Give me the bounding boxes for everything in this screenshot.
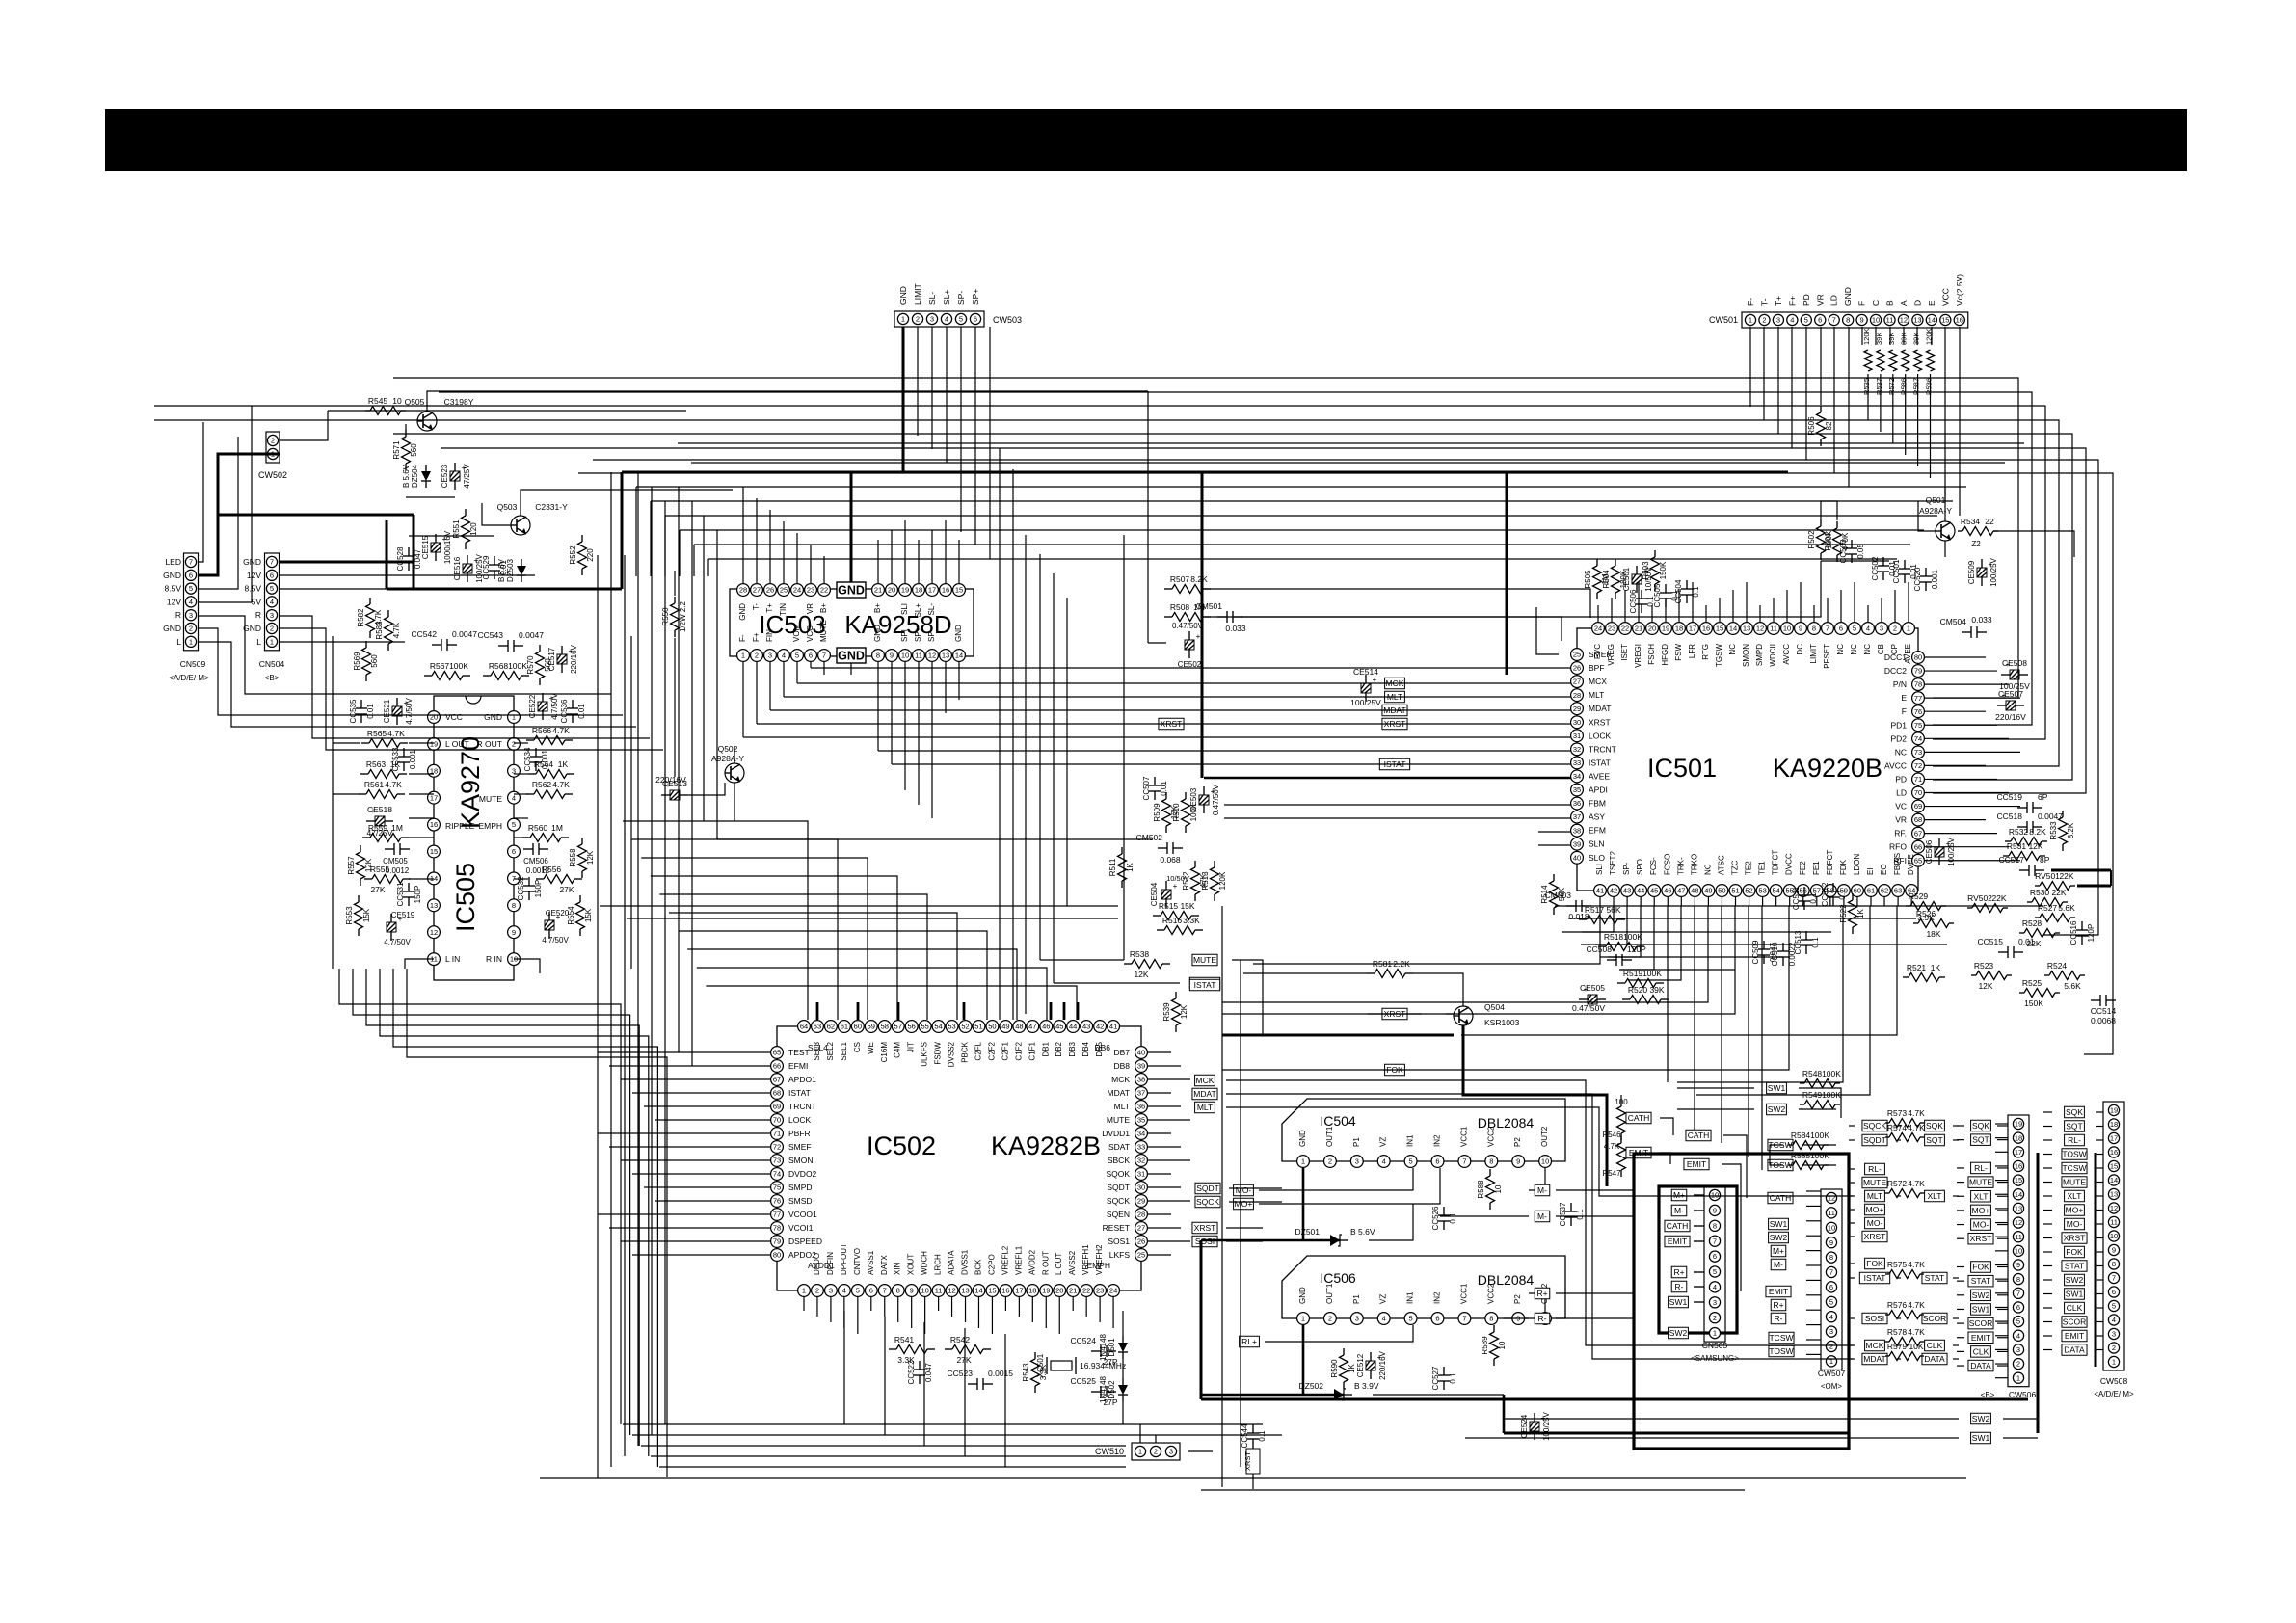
svg-text:4.7K: 4.7K (392, 622, 401, 638)
wire cw508 STAT row2 (2096, 1265, 2103, 1267)
wire ic502 right pin 9 (1148, 1173, 1171, 1175)
svg-text:35: 35 (1137, 1116, 1145, 1125)
svg-text:TRK-: TRK- (1676, 857, 1685, 875)
svg-text:17: 17 (430, 793, 438, 802)
wire cw506 pin stub 2 (1995, 1151, 2008, 1153)
resistor R590 (1330, 1348, 1356, 1389)
svg-text:MUTE: MUTE (819, 620, 828, 642)
wire cn509 up2 (199, 437, 238, 589)
wire cw506 STAT row left (1957, 1280, 1964, 1282)
wire ic503 top stub r 3 (918, 540, 920, 583)
wire cw507 res row y1241 (1897, 1195, 1901, 1197)
resistor R557 (347, 845, 373, 886)
wire CW501 pin3 drop (1777, 327, 1779, 434)
wire cw508 SCOR row (2043, 1321, 2052, 1323)
node MCK (1195, 1075, 1215, 1086)
svg-text:SQT: SQT (1926, 1135, 1942, 1145)
wire ic502 right pin 2 (1148, 1078, 1190, 1080)
svg-text:28: 28 (739, 586, 747, 595)
svg-text:LOCK: LOCK (1589, 731, 1611, 740)
connector CW506 (2008, 1115, 2029, 1387)
svg-text:M+: M+ (1773, 1246, 1784, 1256)
svg-text:4.7K: 4.7K (385, 780, 402, 789)
svg-text:73: 73 (1914, 748, 1922, 757)
wire CW501 pin14 drop (1931, 327, 1933, 345)
wire ic503 bot stub rx967 (931, 662, 933, 818)
svg-text:CE517: CE517 (547, 647, 556, 671)
wire ic501 right conn 9 (1925, 778, 1997, 780)
svg-text:4.7K: 4.7K (1908, 1300, 1925, 1310)
svg-text:0.068: 0.068 (1160, 855, 1181, 865)
svg-text:8.2K: 8.2K (2029, 827, 2046, 837)
wire ic501 drop 8 (1629, 906, 1789, 1070)
node STAT cw508 (2062, 1261, 2087, 1272)
wire cw508 MO- row2 (2096, 1223, 2103, 1225)
svg-text:15: 15 (1716, 625, 1723, 633)
svg-text:11: 11 (1828, 1209, 1835, 1217)
svg-text:VCC: VCC (1940, 288, 1950, 306)
svg-text:27: 27 (1573, 678, 1581, 686)
wire ic503 bot stub x771 (742, 662, 744, 737)
resistor R530 (2027, 888, 2068, 907)
svg-text:ASY: ASY (1589, 812, 1605, 822)
svg-text:R560: R560 (528, 823, 548, 833)
svg-text:SQOK: SQOK (1106, 1169, 1130, 1179)
svg-text:4: 4 (1382, 1157, 1386, 1166)
wire ic502 right pin 11 (1148, 1200, 1190, 1202)
svg-text:20: 20 (1648, 625, 1656, 633)
svg-text:R534: R534 (1961, 517, 1981, 526)
svg-text:39K: 39K (1912, 333, 1921, 345)
potentiometer RV502 (1967, 893, 2008, 913)
svg-text:SMEF: SMEF (788, 1142, 812, 1152)
svg-text:SW2: SW2 (1972, 1290, 1990, 1300)
svg-text:VZ: VZ (1379, 1137, 1388, 1147)
svg-text:24: 24 (1109, 1287, 1117, 1295)
node CATH (1665, 1220, 1690, 1232)
wire bottom bus 2 (641, 1445, 1126, 1447)
wire cw507 MO+ left (1849, 1209, 1855, 1211)
wire cn509 r (199, 616, 611, 694)
wire ic502 right pin 14 (1148, 1240, 1190, 1242)
wire ic501 top stub 0 (1597, 605, 1599, 622)
capacitor CM502 (1136, 833, 1183, 854)
wire ce513 link (688, 783, 725, 795)
node MO+ cw507 (1865, 1204, 1885, 1215)
capacitor CC524 (1071, 1336, 1116, 1357)
resistor R545 (365, 396, 406, 415)
node MO+ cw508 (2065, 1205, 2085, 1216)
svg-text:51: 51 (974, 1023, 982, 1031)
svg-text:CM504: CM504 (1940, 617, 1967, 626)
wire cw507 res row y1183 (1897, 1139, 1901, 1141)
svg-text:22: 22 (1082, 1287, 1090, 1295)
resistor R563 (360, 759, 407, 779)
svg-text:80: 80 (1914, 653, 1922, 662)
wire bus mid corner 1 (650, 501, 652, 576)
resistor R513 (1201, 861, 1227, 901)
svg-text:SQT: SQT (2066, 1122, 2082, 1131)
node MCK cw507 (1865, 1340, 1885, 1351)
svg-text:6: 6 (869, 1287, 873, 1295)
svg-text:100K: 100K (1623, 932, 1642, 942)
svg-text:P1: P1 (1352, 1294, 1361, 1304)
capacitor CC509 (1751, 940, 1777, 964)
wire CW501 pin6 drop (1820, 327, 1822, 405)
svg-text:FDK: FDK (1839, 859, 1848, 875)
svg-text:R514: R514 (1540, 885, 1549, 904)
svg-text:16: 16 (1001, 1287, 1009, 1295)
resistor R534 (1958, 517, 1998, 536)
svg-text:4: 4 (842, 1287, 846, 1295)
wire under501 y967 (1582, 931, 1831, 933)
svg-text:30: 30 (1137, 1184, 1145, 1192)
node EMIT (1626, 1147, 1651, 1158)
svg-text:6: 6 (1818, 316, 1822, 325)
svg-text:52: 52 (961, 1023, 969, 1031)
svg-text:1N4148: 1N4148 (1099, 1333, 1108, 1361)
svg-text:1: 1 (741, 652, 745, 660)
svg-text:SQDT: SQDT (1863, 1135, 1886, 1145)
resistor R541 (889, 1335, 935, 1354)
svg-text:MO-: MO- (1867, 1218, 1883, 1228)
svg-text:100/25V: 100/25V (1989, 557, 1998, 586)
svg-text:14: 14 (1928, 316, 1936, 325)
wire sw2 long (1677, 1108, 1754, 1110)
wire ic501 right conn 14 (1925, 846, 2009, 848)
wire ic502 bottom stub 20 (1072, 1297, 1074, 1311)
svg-text:CE523: CE523 (441, 464, 449, 488)
svg-text:F-: F- (1746, 298, 1755, 306)
svg-text:7: 7 (189, 558, 193, 567)
wire bus loop 6 (593, 460, 2098, 935)
wire ic501 bottom stub 19 (1856, 897, 1858, 906)
wire cw508 SW2 row (2043, 1279, 2052, 1281)
wire m. row (1440, 1215, 1529, 1217)
svg-text:1: 1 (2016, 1373, 2020, 1382)
wire cw506 FOK row right (1997, 1266, 2008, 1268)
svg-text:VCC: VCC (445, 712, 463, 722)
svg-text:63: 63 (1894, 887, 1902, 895)
diode D502 (1099, 1375, 1128, 1403)
wire r584 left (1770, 1145, 1783, 1165)
svg-text:0.01: 0.01 (1909, 564, 1918, 579)
wire mid row y737 (770, 709, 1571, 711)
connector CN509 (184, 553, 199, 651)
wire ic501 bottom stub 16 (1816, 897, 1818, 906)
svg-text:CE512: CE512 (1356, 1353, 1365, 1377)
resistor R511 (1108, 847, 1135, 888)
svg-text:150K: 150K (1659, 561, 1668, 579)
node MLT cw507 (1865, 1190, 1885, 1202)
transistor Q505 (417, 412, 437, 431)
resistor R575 (1885, 1260, 1925, 1279)
wire ic502 left pin 9 (632, 1173, 770, 1175)
svg-text:RTG: RTG (1701, 644, 1710, 660)
svg-text:C4M: C4M (894, 1042, 902, 1058)
svg-text:GND: GND (243, 624, 261, 633)
wire M+ to CN505 (1694, 1194, 1704, 1196)
resistor R503 (1642, 550, 1668, 591)
wire ic501 bottom stub 10 (1735, 897, 1737, 906)
wire cw506 MO- row right (1997, 1224, 2008, 1226)
wire ic505 right rail2 (630, 636, 632, 969)
svg-text:AVDD1: AVDD1 (808, 1261, 835, 1270)
wire v 704 (678, 487, 680, 1052)
wire ic503 top stub r 4 (931, 530, 933, 583)
svg-text:ULKFS: ULKFS (921, 1042, 929, 1067)
wire v1191 (1147, 391, 1149, 643)
wire q502 down (734, 783, 735, 821)
svg-text:DBL2084: DBL2084 (1478, 1115, 1535, 1131)
svg-text:13: 13 (430, 901, 438, 910)
svg-text:2: 2 (916, 315, 920, 324)
svg-text:32: 32 (1137, 1157, 1145, 1165)
wire ic501 bottom stub 0 (1599, 897, 1601, 906)
svg-text:220/16V: 220/16V (570, 644, 578, 673)
svg-text:P1: P1 (1352, 1137, 1361, 1147)
wire staircase mid 4 (659, 894, 927, 1020)
wire cw506 pin stub 12 (1995, 1292, 2008, 1294)
wire cw508 SQT row2 (2096, 1126, 2103, 1128)
capacitor CC519 (1997, 792, 2048, 813)
wire cw507 pin stub 11 (1806, 1353, 1821, 1355)
wire ic501 right conn 5 (1925, 724, 1997, 726)
svg-text:220/16V: 220/16V (655, 775, 686, 785)
wire staircase mid 7 (687, 949, 1017, 1020)
svg-text:50: 50 (1718, 887, 1725, 895)
svg-text:3: 3 (1355, 1157, 1359, 1166)
zener DZ502 (1298, 1381, 1378, 1400)
svg-text:9: 9 (512, 928, 516, 937)
wire emit2 right (1722, 1164, 1741, 1291)
svg-text:6: 6 (809, 652, 813, 660)
svg-text:R515: R515 (1159, 901, 1179, 911)
svg-text:47/25V: 47/25V (463, 464, 471, 489)
wire cw507 res out y1410 (1953, 1358, 1959, 1360)
svg-text:9: 9 (910, 1287, 914, 1295)
svg-text:C2PO: C2PO (987, 1254, 996, 1275)
wire ic501 bottom stub 2 (1626, 897, 1628, 906)
svg-text:26: 26 (1573, 664, 1581, 673)
svg-text:560: 560 (410, 443, 418, 457)
svg-text:CC508: CC508 (1587, 945, 1613, 954)
svg-text:10: 10 (1783, 625, 1791, 633)
wire cn504 down2 (279, 628, 663, 750)
svg-text:GND: GND (1298, 1130, 1307, 1147)
svg-text:CE521: CE521 (383, 699, 391, 723)
svg-text:69: 69 (773, 1103, 781, 1111)
svg-text:16: 16 (1702, 625, 1710, 633)
svg-text:SP-: SP- (1622, 862, 1631, 875)
svg-text:CE504: CE504 (1150, 882, 1159, 906)
wire ic501 top stub 17 (1827, 598, 1829, 622)
svg-text:R563: R563 (366, 759, 387, 769)
node SQDT cw507 (1862, 1134, 1887, 1146)
svg-text:0.1: 0.1 (1449, 1372, 1457, 1384)
wire ic501 top stub 21 (1881, 598, 1882, 622)
wire cw506 RL- row left (1957, 1167, 1964, 1169)
wire ic501 top stub 14 (1786, 590, 1788, 622)
resistor R552 (569, 535, 595, 575)
node R+ right (1771, 1299, 1786, 1311)
svg-text:41: 41 (1596, 887, 1604, 895)
wire ic502 top thick stub x1118 (1077, 1002, 1080, 1020)
wire smef link (1536, 607, 1559, 654)
svg-text:14: 14 (955, 652, 963, 660)
svg-text:R571: R571 (392, 440, 401, 460)
svg-text:R508: R508 (1170, 602, 1190, 612)
svg-text:10: 10 (1494, 1184, 1503, 1193)
wire sw2 bottom row (1504, 1418, 1959, 1420)
svg-text:IC501: IC501 (1647, 754, 1717, 783)
svg-text:VR: VR (806, 603, 814, 614)
svg-text:SMSD: SMSD (788, 1196, 813, 1206)
svg-text:RL-: RL- (1868, 1164, 1882, 1174)
svg-text:120K: 120K (1218, 871, 1227, 890)
svg-text:21: 21 (1635, 625, 1642, 633)
svg-text:6: 6 (1829, 1283, 1833, 1291)
wire r581 q504 (1413, 973, 1463, 1006)
svg-text:120: 120 (469, 522, 478, 536)
svg-text:MO+: MO+ (2066, 1206, 2084, 1215)
node R- right (1771, 1313, 1786, 1324)
wire bus mid corner 5 (707, 559, 709, 576)
wire cn504 85v (279, 588, 443, 590)
svg-text:2: 2 (271, 437, 275, 445)
svg-text:CNTVO: CNTVO (853, 1248, 862, 1275)
wire ic502 left pin 7 (609, 1146, 770, 1148)
svg-text:46: 46 (1664, 887, 1671, 895)
wire ic502 bottom stub 13 (977, 1297, 979, 1328)
capacitor CE504 (1161, 881, 1178, 908)
wire cw508 MO- row (2043, 1223, 2052, 1225)
svg-text:NC: NC (1728, 644, 1737, 655)
capacitor CC522 (907, 1360, 933, 1384)
capacitor CE518 (366, 805, 393, 838)
svg-text:1: 1 (1749, 316, 1752, 325)
wire ic503 top stub 0 (742, 487, 744, 583)
svg-text:R574: R574 (1887, 1123, 1908, 1132)
svg-text:10K: 10K (1909, 1342, 1923, 1351)
svg-text:69: 69 (1914, 802, 1922, 811)
capacitor CC533 (391, 747, 417, 771)
svg-text:74: 74 (773, 1170, 781, 1179)
svg-text:DATA: DATA (1924, 1354, 1945, 1364)
node RL- cw508 (2065, 1134, 2085, 1146)
svg-text:DZ504: DZ504 (411, 464, 419, 488)
wire ic501 bottom stub 22 (1897, 897, 1899, 906)
svg-text:16: 16 (2110, 1148, 2118, 1157)
svg-text:XLT: XLT (1928, 1191, 1942, 1201)
svg-text:24: 24 (1594, 625, 1602, 633)
svg-text:13: 13 (1743, 625, 1750, 633)
svg-text:SLN: SLN (1589, 839, 1605, 849)
svg-text:R589: R589 (1481, 1336, 1489, 1355)
svg-text:MO-: MO- (2067, 1219, 2083, 1229)
capacitor CE506 (1925, 837, 1956, 865)
svg-text:R533: R533 (2049, 821, 2058, 840)
svg-text:R503: R503 (1642, 561, 1650, 580)
svg-text:SLI: SLI (900, 603, 909, 615)
wire v 744 (716, 530, 718, 839)
wire ic503 bot stub x827 (796, 662, 798, 683)
wire cw506 pin stub 1 (1995, 1137, 2008, 1139)
svg-text:24: 24 (793, 586, 801, 595)
svg-text:21: 21 (874, 586, 882, 595)
node XRST (1382, 718, 1407, 730)
wire cath2 right (1723, 1135, 1747, 1198)
wire cw506 XRST row left (1957, 1237, 1964, 1239)
svg-text:100K: 100K (1810, 1151, 1829, 1160)
node XRST cw506 (1968, 1233, 1993, 1244)
wire m- row (1529, 1168, 1545, 1190)
node MUTE (1192, 954, 1217, 966)
svg-text:18: 18 (2110, 1120, 2118, 1129)
svg-text:VOM: VOM (792, 624, 801, 642)
wire ic502 bottom stub 14 (991, 1297, 993, 1334)
wire cw507 pin stub 6 (1806, 1279, 1821, 1281)
node ISTAT (1189, 979, 1219, 991)
wire ic502 bot long 5 (1004, 1334, 1006, 1467)
wire cw508 SQT row (2043, 1126, 2052, 1128)
svg-text:79: 79 (1914, 667, 1922, 676)
resistor R516 (1157, 916, 1203, 935)
wire row940 left (600, 905, 1118, 907)
wire rl+ row (1265, 1325, 1413, 1342)
wire cw507 ISTAT left (1849, 1277, 1855, 1279)
svg-text:C16M: C16M (880, 1042, 889, 1063)
resistor R576 (1885, 1300, 1925, 1319)
node ISTAT (1189, 977, 1219, 989)
svg-text:3: 3 (189, 611, 193, 620)
svg-text:51: 51 (1731, 887, 1739, 895)
svg-text:SDAT: SDAT (1108, 1142, 1130, 1152)
wire d501-d502 (1122, 1359, 1124, 1378)
wire mid row y693 (811, 667, 1571, 669)
svg-text:R516: R516 (1162, 916, 1183, 925)
svg-text:EMPH: EMPH (1086, 1261, 1110, 1270)
wire ic501 top stub 13 (1773, 598, 1775, 622)
svg-text:R557: R557 (347, 856, 356, 875)
resistor R522 (1839, 893, 1865, 934)
wire cw506 STAT row right (1997, 1280, 2008, 1282)
wire mo+ row (1259, 1168, 1440, 1204)
svg-text:8: 8 (1812, 625, 1816, 633)
svg-text:1: 1 (270, 637, 274, 646)
svg-text:2: 2 (1762, 316, 1766, 325)
svg-text:2: 2 (1893, 625, 1897, 633)
wire ic502 top thick stub x1000 (963, 1002, 966, 1020)
svg-text:8: 8 (1829, 1253, 1833, 1262)
svg-text:55: 55 (921, 1023, 928, 1031)
svg-text:Q501: Q501 (1926, 495, 1946, 505)
wire Q501 c (1944, 487, 1946, 521)
svg-text:8.2K: 8.2K (1190, 574, 1208, 584)
wire q503 base (482, 503, 511, 525)
svg-text:CATH: CATH (1770, 1193, 1792, 1203)
svg-text:12K: 12K (586, 850, 595, 865)
node SQT cw508 (2065, 1121, 2085, 1132)
svg-text:MLT: MLT (1867, 1191, 1882, 1201)
svg-text:2: 2 (512, 740, 516, 749)
resistor R520 (1622, 985, 1669, 1004)
svg-text:LIMIT: LIMIT (913, 283, 922, 305)
svg-text:TRCNT: TRCNT (788, 1102, 816, 1111)
capacitor CM506 (523, 843, 548, 855)
svg-text:70: 70 (773, 1116, 781, 1125)
svg-text:CC526: CC526 (1431, 1206, 1440, 1230)
